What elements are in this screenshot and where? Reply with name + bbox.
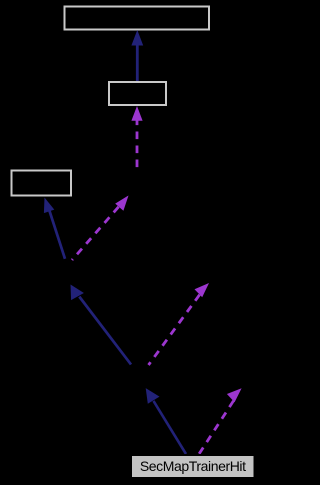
- usage arrow E2: hidden node N1 to B2 (dashed darkorchid, vertical): [131, 106, 142, 172]
- inheritance arrow E5: hidden node N3 to hidden node N2 (solid midnightblue): [71, 285, 133, 366]
- node box B3 (left class, label hidden on black): [12, 171, 72, 196]
- inheritance arrow E1: B2 to B1 (solid midnightblue): [131, 30, 143, 82]
- node box B4: SecMapTrainerHit (current class, grey fill, black border): [131, 455, 255, 478]
- inheritance arrow E7: SecMapTrainerHit to hidden node N3 (solid midnightblue): [146, 388, 187, 455]
- usage arrow E8: SecMapTrainerHit to hidden node N5 (dashed darkorchid, diagonal): [199, 388, 242, 454]
- inheritance arrow E3: hidden node N2 to B3 (solid midnightblue): [44, 198, 66, 260]
- usage arrow E4: hidden node N2 to hidden node N1 (dashed darkorchid, diagonal): [72, 196, 129, 261]
- usage arrow E6: hidden node N3 to hidden node N4 (dashed darkorchid, diagonal): [149, 283, 210, 365]
- node box B2 (middle class, label hidden on black): [109, 82, 166, 105]
- svg-text:SecMapTrainerHit: SecMapTrainerHit: [140, 458, 246, 474]
- node box B1 (top class, label hidden on black): [65, 7, 210, 30]
